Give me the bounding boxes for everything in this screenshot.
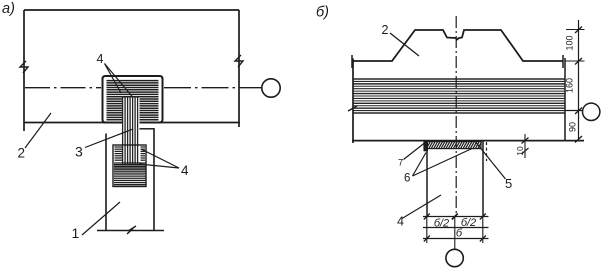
leader 4 right b — [139, 164, 179, 168]
leader 6 b — [413, 149, 473, 177]
column b left edge — [426, 149, 428, 216]
svg-text:10: 10 — [515, 146, 525, 156]
extension right — [482, 217, 484, 244]
break symbol right edge — [235, 55, 243, 67]
axis mark circle — [262, 79, 280, 97]
axis dash-dot line — [25, 87, 101, 89]
panel bottom edge left — [24, 122, 123, 124]
hidden edge dashed line — [486, 142, 488, 161]
leader 4 upper b — [105, 64, 134, 98]
svg-text:2: 2 — [18, 146, 26, 161]
svg-text:7: 7 — [398, 158, 403, 169]
axis circle bottom — [446, 249, 463, 266]
leader 7 — [404, 143, 425, 160]
bottom dim line 1 — [423, 216, 489, 218]
panel bottom edge right — [140, 122, 241, 124]
dim tick 4 — [575, 136, 582, 143]
svg-text:1: 1 — [72, 225, 80, 241]
bearing pad outline — [424, 142, 481, 149]
ledge line at column top — [140, 128, 155, 130]
svg-text:3: 3 — [75, 144, 83, 160]
ridge element outline — [352, 30, 563, 61]
lower pad hatch dense mid band — [114, 163, 146, 170]
bottom dim line 3 — [423, 238, 489, 240]
beam bottom edge — [352, 140, 584, 142]
tick dim3 left — [424, 236, 430, 242]
leader 3 — [85, 129, 133, 148]
beam right edge — [564, 58, 566, 141]
dimension extension to circle — [565, 110, 583, 112]
tick dim1 centre — [452, 214, 458, 220]
leader 1 — [82, 202, 120, 235]
leader 5 — [474, 140, 506, 179]
tick dim1 right — [480, 214, 486, 220]
tick dim1 left — [424, 214, 430, 220]
leader 4 right a — [141, 149, 179, 168]
extension centre — [454, 217, 456, 250]
leader 6 a — [413, 153, 427, 177]
svg-text:5: 5 — [505, 176, 512, 191]
lamination lines — [354, 79, 565, 113]
column b right edge — [482, 142, 484, 217]
svg-text:б/2: б/2 — [434, 218, 449, 230]
panel left edge — [23, 10, 25, 131]
ridge right end tick — [562, 55, 564, 68]
tick 10 top — [522, 138, 529, 144]
svg-text:2: 2 — [382, 23, 389, 37]
leader 2 — [25, 113, 51, 148]
leader 4 upper a — [105, 64, 122, 94]
svg-text:6: 6 — [404, 173, 410, 185]
extension left — [426, 217, 428, 244]
svg-text:б: б — [456, 228, 463, 240]
break symbol column bottom — [127, 226, 136, 234]
lower pad outline — [113, 145, 146, 187]
svg-text:4: 4 — [181, 163, 189, 178]
dimension extension at beam top — [565, 60, 585, 62]
svg-text:4: 4 — [397, 215, 404, 229]
svg-text:4: 4 — [97, 52, 104, 66]
tick on beam left edge — [348, 106, 357, 111]
svg-text:160: 160 — [565, 78, 575, 93]
svg-text:б): б) — [316, 5, 329, 21]
panel right edge — [238, 10, 240, 127]
axis dash-dot line right part — [164, 87, 262, 89]
dim tick 2 — [575, 58, 582, 65]
beam left edge — [352, 59, 354, 144]
joint block hatch upper — [107, 81, 159, 97]
pad thickness dim line 10 — [524, 134, 526, 158]
tick 10 bottom — [522, 148, 529, 154]
joint block hatch left — [107, 99, 123, 120]
lower pad hatch lower — [114, 172, 146, 185]
lower pad hatch upper-left — [115, 147, 123, 160]
svg-text:а): а) — [2, 1, 15, 17]
column right edge — [153, 129, 155, 230]
dim tick 3 — [575, 108, 582, 115]
grout strip vertical lines — [123, 97, 138, 164]
right dimension line — [578, 20, 580, 139]
centre axis dash-dot — [455, 16, 457, 217]
leader 2 fig b — [390, 33, 419, 56]
dimension extension at ridge top — [566, 29, 585, 31]
bearing pad hatch — [424, 142, 482, 148]
joint block hatch right — [140, 99, 159, 120]
svg-text:90: 90 — [568, 122, 578, 132]
bearing pad dark left end — [424, 142, 429, 152]
ridge left end tick — [351, 55, 353, 68]
column left edge — [105, 134, 107, 231]
break symbol left edge — [20, 61, 28, 73]
dim tick 1 — [575, 27, 582, 34]
leader 4 fig b — [402, 195, 441, 219]
svg-text:б/2: б/2 — [461, 217, 476, 229]
lower pad hatch upper-right — [141, 147, 146, 160]
panel top edge — [24, 9, 239, 11]
column bottom cut line — [97, 230, 164, 232]
svg-text:100: 100 — [565, 35, 575, 50]
joint block border — [103, 76, 163, 123]
tick dim3 right — [480, 236, 486, 242]
axis circle right — [583, 103, 600, 120]
bottom dim line 2 — [423, 227, 489, 229]
